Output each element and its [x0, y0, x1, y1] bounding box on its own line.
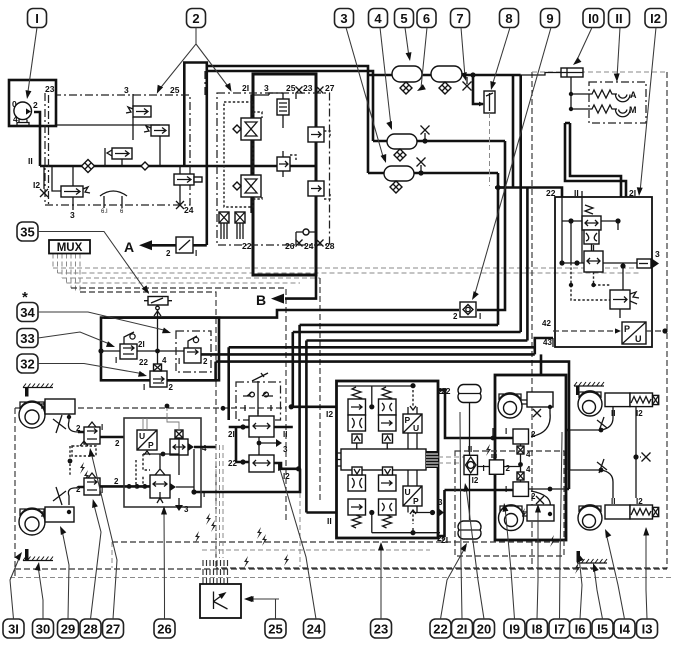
svg-text:A: A	[124, 239, 134, 255]
svg-text:26: 26	[285, 241, 295, 251]
valve 18	[505, 427, 536, 444]
harness line to node x286	[71, 288, 286, 520]
callout 29	[58, 619, 79, 638]
svg-text:4: 4	[374, 11, 382, 26]
drain valve 6a	[400, 82, 412, 94]
wire b4 drop to valve 24	[227, 347, 230, 420]
harness CAN line 1	[53, 268, 652, 330]
svg-text:2: 2	[33, 100, 38, 110]
dryer regeneration valve	[126, 106, 151, 117]
U/P converter	[137, 430, 157, 455]
wire riser to bundle b3	[526, 188, 529, 341]
hose rear upper	[531, 407, 550, 437]
dryer pressure limiter 4	[174, 174, 202, 185]
solenoid lightning marks	[80, 462, 85, 474]
foot brake module 26 frame	[124, 418, 201, 507]
callout 26	[154, 619, 175, 638]
callout 11	[609, 9, 630, 28]
svg-text:9: 9	[546, 11, 553, 26]
test point 7	[466, 77, 468, 84]
trailer valve 12 enclosure	[555, 197, 652, 347]
svg-text:II: II	[615, 11, 622, 26]
svg-text:I2: I2	[472, 476, 479, 485]
callout 32	[17, 354, 38, 373]
wire supply to circuit tank 3	[207, 71, 373, 141]
svg-text:U: U	[405, 487, 411, 497]
wire EBS port 12 line	[291, 405, 336, 408]
svg-text:25: 25	[268, 621, 282, 636]
svg-text:43: 43	[543, 338, 552, 347]
svg-text:2: 2	[166, 249, 171, 258]
unit2 pressure sensor right	[235, 212, 245, 239]
box12 spring top	[585, 205, 593, 214]
svg-text:25: 25	[286, 83, 296, 93]
callout 9	[541, 9, 560, 28]
svg-text:2: 2	[531, 492, 536, 501]
svg-text:3: 3	[70, 210, 75, 220]
harness CAN line 4	[67, 282, 301, 284]
callout 13	[637, 619, 658, 638]
harness drop x320	[319, 278, 321, 500]
svg-text:22: 22	[139, 358, 148, 367]
svg-text:I8: I8	[532, 621, 543, 636]
svg-text:3: 3	[438, 498, 443, 507]
callout 30	[33, 619, 54, 638]
drain valve tank3	[390, 181, 402, 193]
svg-text:7: 7	[456, 11, 463, 26]
EBS solenoid valve top B	[379, 387, 397, 443]
rear chamber lower	[499, 505, 555, 531]
feed to valve 18	[438, 390, 513, 438]
svg-text:3: 3	[655, 249, 660, 259]
box12 venturi	[584, 230, 599, 244]
anchorage wall front	[23, 384, 53, 397]
EBS manifold bar	[341, 449, 426, 470]
test point X 24	[176, 201, 184, 209]
callout 27	[103, 619, 124, 638]
feed lines to valve box 12	[565, 123, 626, 197]
svg-text:28: 28	[325, 241, 335, 251]
MUX multiplexer	[49, 240, 90, 254]
callout 20	[474, 619, 495, 638]
wire bundle line b6 to trailer hoses	[216, 362, 569, 430]
svg-text:23: 23	[45, 84, 55, 94]
brake chamber front lower	[19, 507, 74, 535]
svg-text:4: 4	[526, 465, 531, 474]
callout 2	[187, 9, 206, 28]
svg-text:35: 35	[20, 224, 34, 239]
wire tank 3 output	[373, 140, 505, 143]
unit2 mid valve	[277, 151, 296, 177]
EBS solenoid valve top A	[348, 387, 366, 443]
svg-text:I: I	[115, 356, 117, 365]
port 3 down of 26	[178, 498, 180, 505]
svg-text:2: 2	[115, 439, 120, 448]
svg-text:P: P	[413, 496, 419, 506]
drain valve tank4	[394, 149, 406, 161]
svg-text:2I: 2I	[242, 83, 249, 93]
wire riser main to bundle b2	[519, 75, 522, 332]
hose with check front lower	[68, 488, 78, 505]
valve17 port4	[517, 465, 531, 480]
svg-text:I: I	[178, 357, 180, 366]
brake chamber front upper	[19, 399, 75, 428]
svg-text:I0: I0	[588, 11, 599, 26]
svg-text:8: 8	[505, 11, 512, 26]
wire b1 drop to node	[298, 325, 301, 469]
feed to valve 17	[438, 490, 513, 536]
test X rear lower	[536, 496, 544, 504]
svg-text:2: 2	[453, 312, 458, 321]
svg-text:4: 4	[13, 114, 18, 124]
svg-text:I2: I2	[326, 409, 333, 419]
P/U converter of box12	[622, 322, 646, 344]
unit2 left top valve	[233, 112, 262, 140]
harness boundary top	[532, 71, 667, 73]
relay valve 27	[76, 473, 103, 495]
callout 31	[3, 619, 24, 638]
compressor 1	[12, 99, 38, 126]
wire module 26 output	[194, 469, 300, 492]
air processing unit 2 enclosure	[253, 74, 316, 275]
svg-text:U: U	[139, 431, 145, 441]
svg-text:27: 27	[106, 621, 120, 636]
EBS U/P bottom	[403, 486, 422, 506]
svg-text:32: 32	[20, 356, 34, 371]
svg-text:3I: 3I	[8, 621, 19, 636]
svg-text:I6: I6	[575, 621, 586, 636]
callout 12	[645, 9, 666, 28]
box12 port 3 out	[637, 249, 660, 269]
wire test coupling 9 line	[104, 310, 459, 318]
junction node 468	[296, 466, 301, 471]
svg-text:I9: I9	[509, 621, 520, 636]
svg-text:34: 34	[20, 305, 35, 320]
svg-text:2: 2	[169, 383, 174, 392]
wiring from fuse	[554, 73, 571, 110]
svg-text:2I: 2I	[457, 621, 468, 636]
callout 28	[80, 619, 101, 638]
svg-text:I3: I3	[642, 621, 653, 636]
air bellows 21	[458, 521, 481, 539]
reservoir tank 4t	[387, 134, 417, 149]
fuse 10	[561, 68, 583, 77]
park valve upper	[249, 410, 274, 437]
junction main line	[470, 72, 475, 77]
wire feed to fuse 10	[521, 73, 554, 76]
test X rear upper	[533, 409, 541, 417]
wire rear bogie feed	[540, 354, 543, 375]
harness line to node x216	[80, 292, 216, 570]
box12 relay valve upper	[582, 216, 601, 230]
harness bundle to diagnostics	[216, 445, 223, 558]
svg-text:I2: I2	[650, 11, 661, 26]
filter diamond on line 11	[82, 160, 95, 173]
callout 33	[17, 329, 38, 348]
relay valve 28	[76, 422, 103, 444]
unit2 dotted inner frame	[224, 102, 253, 207]
junction harness 223	[221, 406, 226, 411]
svg-text:23: 23	[374, 621, 388, 636]
svg-text:29: 29	[61, 621, 75, 636]
svg-text:II: II	[327, 516, 332, 526]
unit2 left bottom valve	[233, 175, 262, 199]
EBS harness connector	[426, 451, 438, 468]
wire compressor delivery	[34, 112, 40, 166]
resistor M	[589, 105, 614, 113]
compressor 1 enclosure box	[9, 80, 56, 126]
wire bundle line b1	[300, 324, 498, 327]
park valve lower	[249, 455, 274, 472]
wire governor feed	[473, 75, 483, 104]
callout 10	[583, 9, 604, 28]
harness MUX fan-out	[52, 254, 54, 269]
EBS P/U top	[403, 414, 422, 433]
unit2 pressure sensor left	[219, 212, 229, 239]
EBS dashed surround	[455, 451, 564, 556]
rear chamber upper	[498, 392, 553, 418]
svg-text:I7: I7	[554, 621, 565, 636]
svg-text:20: 20	[477, 621, 491, 636]
arrow into K box	[248, 598, 279, 600]
svg-text:2I: 2I	[228, 430, 235, 439]
line restrictor 35	[144, 297, 172, 365]
svg-text:24: 24	[184, 205, 194, 215]
svg-text:23: 23	[303, 83, 313, 93]
harness K-box feed line	[202, 549, 430, 551]
svg-text:22: 22	[242, 241, 252, 251]
svg-text:I2: I2	[33, 180, 40, 190]
solenoid valve upper right of 26	[170, 430, 207, 455]
svg-text:2: 2	[114, 477, 119, 486]
resistor A	[589, 90, 614, 98]
svg-text:B: B	[256, 292, 266, 308]
box12 main valve	[584, 245, 603, 272]
svg-text:II: II	[28, 156, 33, 166]
drain valve 6b	[439, 82, 451, 94]
wire riser tank3 link	[498, 141, 505, 188]
solenoid valve 32	[143, 356, 174, 392]
svg-text:I2: I2	[636, 497, 643, 506]
svg-text:2: 2	[531, 430, 536, 439]
svg-text:P: P	[405, 415, 411, 425]
svg-text:25: 25	[170, 85, 180, 95]
svg-text:42: 42	[542, 319, 551, 328]
wire port 23 line	[56, 124, 133, 126]
unit2 top center valve	[277, 93, 289, 121]
wire coupling 9 to supply	[477, 188, 505, 311]
diagnostics K box 25	[200, 584, 241, 618]
svg-text:M: M	[629, 105, 637, 115]
callout 16	[570, 619, 591, 638]
release valve in dash-dot box	[176, 331, 211, 372]
wire riser main to 187	[512, 75, 515, 188]
unit2 dash-dot frame	[217, 93, 330, 245]
svg-text:6: 6	[423, 11, 430, 26]
svg-text:U: U	[413, 423, 419, 433]
svg-text:II: II	[611, 497, 615, 506]
callout 7	[451, 9, 470, 28]
junction EBS 12	[289, 404, 294, 409]
dryer unloader valve	[61, 186, 90, 197]
svg-text:MUX: MUX	[57, 242, 83, 254]
svg-text:I: I	[483, 464, 485, 473]
wire EBS port 11 line	[306, 511, 336, 514]
svg-text:26: 26	[157, 621, 171, 636]
svg-text:30: 30	[36, 621, 50, 636]
svg-text:I: I	[143, 383, 145, 392]
wire main line port 11	[40, 165, 316, 168]
wire b3 drop to EBS port 11	[305, 341, 308, 513]
wire bundle line b5	[201, 353, 535, 356]
svg-text:II: II	[574, 188, 579, 198]
svg-text:I: I	[35, 11, 39, 26]
svg-text:24: 24	[304, 241, 314, 251]
svg-text:3: 3	[184, 505, 189, 514]
dryer check valve 3	[107, 148, 132, 159]
svg-text:0: 0	[12, 99, 17, 109]
svg-text:I5: I5	[597, 621, 608, 636]
reservoir tank 3t	[384, 166, 414, 181]
callout leader lines left	[38, 232, 146, 292]
harness boundary left of unit 12	[531, 72, 533, 568]
harness drop x300	[299, 469, 301, 567]
anchorage wall rear lower	[577, 551, 608, 563]
svg-text:P: P	[148, 440, 154, 450]
svg-text:I2: I2	[283, 472, 290, 481]
wire bundle line b2	[293, 331, 521, 334]
unit2 right bottom valve	[308, 175, 330, 202]
rear bogie enclosure	[495, 375, 566, 540]
callout 25	[265, 619, 286, 638]
governor 8	[476, 91, 495, 186]
svg-text:I: I	[195, 249, 197, 258]
box12 lower valve	[610, 290, 639, 309]
test point tank3	[420, 165, 422, 173]
hose rear lower	[531, 491, 550, 514]
svg-text:3: 3	[283, 445, 288, 454]
callout 14	[614, 619, 635, 638]
wire tank 4 output	[368, 172, 498, 175]
svg-text:6.I: 6.I	[101, 209, 108, 215]
hand brake unit frame 34	[101, 318, 219, 381]
callout leader lines bottom	[10, 556, 20, 619]
spring brake actuator 14	[578, 391, 659, 418]
svg-text:4: 4	[162, 356, 167, 365]
svg-text:27: 27	[325, 83, 335, 93]
relay valve center of 26	[150, 449, 194, 503]
reservoir tank 5b	[431, 66, 462, 82]
svg-text:II: II	[283, 430, 287, 439]
hand brake valve 33	[115, 332, 148, 367]
harness CAN line 2	[58, 272, 641, 274]
svg-text:I4: I4	[619, 621, 631, 636]
svg-text:3: 3	[124, 85, 129, 95]
callout 24	[304, 619, 325, 638]
callout 23	[371, 619, 392, 638]
valve18 port4	[517, 444, 531, 459]
wire supply to circuit tank 4	[207, 66, 368, 173]
harness boundary right	[216, 72, 667, 568]
callout 1	[28, 9, 47, 28]
reservoir tank 5a	[392, 66, 422, 82]
svg-text:2I: 2I	[437, 533, 444, 543]
air bellows 22	[458, 385, 481, 403]
harness left boundary	[14, 408, 16, 576]
svg-text:I2: I2	[636, 409, 643, 418]
park valve unit 24 switch box	[236, 373, 281, 420]
wire bundle line b3	[306, 339, 527, 342]
harness bottom line 1	[112, 541, 560, 543]
wire main reservoir line	[368, 74, 521, 77]
hoses 13	[569, 457, 636, 498]
valve 19	[483, 444, 511, 474]
wire bundle line b4 port 43	[229, 338, 553, 354]
unit2 right top valve	[308, 121, 330, 148]
hose with check front upper	[68, 414, 78, 432]
harness front axle line	[15, 407, 286, 409]
callout 21	[452, 619, 473, 638]
svg-text:2: 2	[192, 11, 199, 26]
harness bottom line 2	[15, 568, 667, 570]
callout 18	[527, 619, 548, 638]
svg-text:22: 22	[433, 621, 447, 636]
spring brake actuator 13	[578, 497, 659, 530]
unit2 bottom port circle	[296, 232, 316, 245]
svg-text:24: 24	[307, 621, 322, 636]
svg-text:I: I	[101, 423, 103, 432]
svg-text:33: 33	[20, 331, 34, 346]
callout 34	[17, 303, 38, 322]
resistor unit 11 frame	[589, 82, 646, 123]
svg-text:2: 2	[506, 464, 511, 473]
wire feed to valve 12 port 22	[495, 188, 562, 198]
valve 17	[505, 480, 536, 501]
callout 22	[430, 619, 451, 638]
svg-text:2: 2	[203, 357, 208, 366]
EBS port 3 arrow	[438, 508, 444, 517]
callout leader lines top	[28, 28, 38, 96]
dryer internal dashed-dot verticals	[49, 71, 206, 205]
lightning marks near 26	[206, 513, 211, 525]
test point tank4	[424, 133, 426, 141]
svg-text:I: I	[479, 312, 481, 321]
hoses 14	[566, 430, 569, 489]
harness bottom line 3	[10, 577, 672, 579]
callout 5	[395, 9, 414, 28]
callout 6	[417, 9, 436, 28]
callout 4	[369, 9, 388, 28]
wire dryer port 4 riser	[184, 63, 207, 246]
svg-text:2I: 2I	[138, 340, 145, 349]
svg-text:*: *	[22, 289, 28, 306]
dashed pilot to 28	[72, 446, 96, 456]
EBS solenoid valve bottom A	[348, 467, 366, 528]
svg-text:5: 5	[400, 11, 407, 26]
svg-text:I: I	[505, 427, 507, 436]
svg-text:P: P	[624, 324, 630, 334]
air dryer unit dash-dot frame	[45, 93, 190, 205]
EBS solenoid valve bottom B	[379, 467, 397, 528]
wire b2 drop to EBS port 12	[291, 332, 294, 407]
svg-text:U: U	[635, 334, 642, 344]
callout 8	[500, 9, 519, 28]
harness CAN line 3	[62, 277, 320, 279]
anchorage wall front lower	[23, 549, 53, 561]
silencer	[100, 191, 127, 208]
svg-text:I: I	[203, 490, 205, 499]
svg-text:A: A	[630, 90, 637, 100]
